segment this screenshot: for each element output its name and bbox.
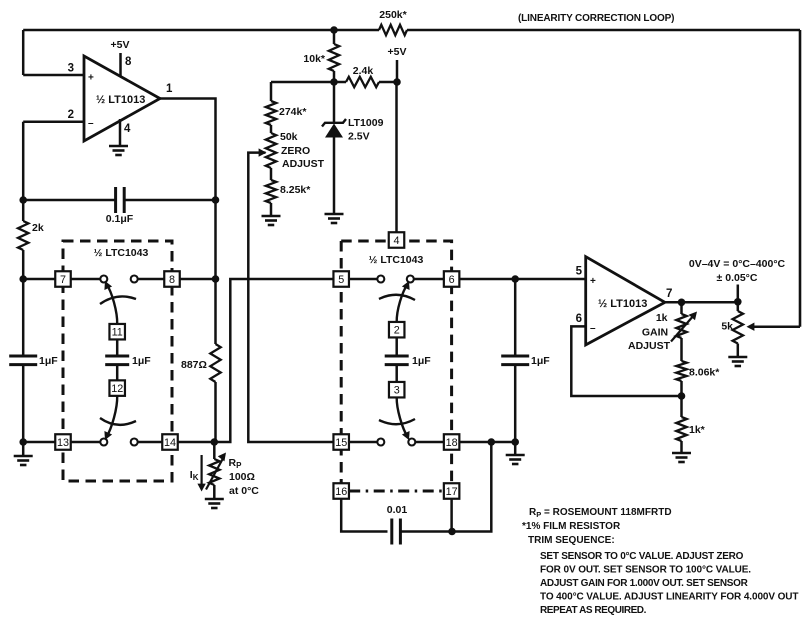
wire: pin7 lead (23, 278, 55, 281)
svg-text:+5V: +5V (111, 39, 130, 51)
wire: linearity loop top horizontal (left segment) (23, 29, 379, 32)
current label IK arrow (201, 455, 203, 488)
svg-text:½ LT1013: ½ LT1013 (96, 94, 145, 106)
resistor R1 2k (18, 221, 28, 250)
svg-text:5: 5 (576, 266, 583, 278)
wire: LT1009 to ground (333, 138, 336, 215)
ground: LT1009 (325, 213, 344, 216)
svg-text:6: 6 (449, 274, 455, 286)
wire: switch arm upper (left block) (106, 284, 117, 325)
wire: 0.1uF row left (23, 199, 115, 202)
svg-text:*1% FILM RESISTOR: *1% FILM RESISTOR (522, 521, 621, 532)
svg-text:2.5V: 2.5V (348, 131, 370, 143)
wire: pin18 lead right (460, 441, 516, 444)
wire: 2k to pin7 row (22, 250, 25, 279)
wire: 1k to 8.06k (680, 338, 683, 361)
pin 2 box (389, 322, 405, 338)
wire: 274k to 50k (270, 125, 273, 133)
resistor R4 2.4k (346, 77, 379, 87)
wire: switch arm lower (middle block) (397, 398, 408, 438)
switch throw contact (left lower) (131, 439, 138, 446)
svg-text:1: 1 (166, 83, 173, 95)
svg-text:11: 11 (112, 327, 123, 339)
svg-text:3: 3 (68, 63, 74, 75)
wire: throw to pin14 (138, 441, 162, 444)
svg-text:1k*: 1k* (689, 424, 706, 436)
wire: node to Rp (213, 442, 216, 459)
wire: pin13 to switch pole (71, 441, 100, 444)
wire: node row to 2.4k (334, 81, 346, 84)
wire: 0.01 to riser (400, 442, 491, 532)
svg-text:LT1009: LT1009 (348, 117, 384, 129)
node: 0.1uF right junction (212, 196, 220, 204)
wire: Rp to ground (213, 485, 216, 499)
svg-text:REPEAT AS REQUIRED.: REPEAT AS REQUIRED. (540, 605, 647, 616)
svg-text:0V–4V = 0°C–400°C: 0V–4V = 0°C–400°C (689, 258, 786, 270)
svg-text:4: 4 (124, 123, 131, 135)
node: left pin7 row junction (19, 275, 27, 283)
svg-text:7: 7 (60, 274, 66, 286)
svg-text:5: 5 (338, 274, 344, 286)
svg-text:14: 14 (164, 437, 176, 449)
wire: 0.1uF row right (124, 199, 215, 202)
ground: 5k (728, 356, 747, 359)
potentiometer R6 50k ZERO ADJUST (266, 133, 276, 168)
op-amp U1 1/2 LT1013 (84, 56, 160, 141)
wire: pin16 down (341, 499, 387, 532)
capacitor C2 0.1uF (114, 187, 117, 213)
wire: switch arm lower (left block) (106, 396, 117, 438)
power +5V stub (middle) (396, 60, 399, 82)
switch throw contact (middle lower) (377, 439, 384, 446)
node: 10k/2.4k junction (330, 78, 338, 86)
ground: 8.25k (262, 215, 281, 218)
wire: pin8 lead (180, 278, 216, 281)
node: pin8 row junction (212, 275, 220, 283)
svg-text:at 0°C: at 0°C (229, 485, 259, 497)
svg-text:4: 4 (393, 235, 399, 247)
svg-text:18: 18 (446, 437, 458, 449)
capacitor C4 1uF (flying, middle) (385, 355, 409, 358)
wire: U3 pin6 feedback (571, 326, 681, 396)
svg-text:ADJUST: ADJUST (628, 340, 671, 352)
node: 0.01 riser junction (488, 438, 496, 446)
svg-text:ADJUST: ADJUST (282, 158, 325, 170)
node: left pin13 row junction (19, 438, 27, 446)
wire: zero adjust wiper to pin15 (248, 153, 334, 442)
node: pin17/0.01 junction (448, 528, 456, 536)
wire: throw to pin8 (138, 278, 164, 281)
svg-text:17: 17 (446, 486, 458, 498)
pin 18 box (444, 434, 460, 450)
wire: 10k top lead (333, 30, 336, 44)
ground: 1k* (672, 452, 691, 455)
wire: pin17 down (450, 499, 453, 532)
svg-text:(LINEARITY CORRECTION LOOP): (LINEARITY CORRECTION LOOP) (518, 13, 674, 24)
potentiometer R8 1k GAIN ADJUST (680, 302, 683, 314)
wire: U1 pin 4 stub (119, 119, 122, 146)
resistor R2 887ohm (210, 344, 220, 382)
wire: pole to pin6 (414, 278, 444, 281)
svg-text:5k: 5k (721, 321, 733, 333)
svg-text:2: 2 (68, 109, 74, 121)
svg-text:8.06k*: 8.06k* (689, 367, 720, 379)
wire: 1uF top lead (514, 279, 517, 356)
svg-text:15: 15 (335, 437, 347, 449)
wire: U1 pin 3 input (23, 74, 84, 77)
svg-text:ADJUST GAIN FOR 1.000V OUT. SE: ADJUST GAIN FOR 1.000V OUT. SET SENSOR (540, 578, 749, 589)
pin 3 box (389, 382, 405, 398)
power +5V stub U1 pin 8 (119, 53, 122, 77)
pin 17 box (444, 483, 460, 499)
pin 7 box (55, 271, 71, 287)
capacitor C1 1uF (left) (9, 355, 37, 358)
wire: 1uF bottom lead (514, 365, 517, 442)
node: 250k/10k junction (330, 26, 338, 34)
wire: linearity loop right vertical (799, 30, 802, 327)
resistor R10 1k* (676, 417, 686, 441)
wire: 1k* to ground (680, 441, 683, 453)
wire: pin13 lead (23, 441, 55, 444)
wire: left column to ground (22, 442, 25, 456)
wire: 8.25k to ground (270, 203, 273, 216)
svg-text:SET SENSOR TO 0°C VALUE. ADJUS: SET SENSOR TO 0°C VALUE. ADJUST ZERO (540, 551, 744, 562)
capacitor C6 0.01 (390, 519, 393, 545)
svg-text:GAIN: GAIN (642, 327, 668, 339)
wire: 10k bottom lead (333, 71, 336, 82)
svg-text:100Ω: 100Ω (229, 471, 255, 483)
node: left 0.1uF junction (19, 196, 27, 204)
wire: pin2 to cap (395, 338, 398, 357)
wire: pin6 lead to 1uF node (460, 278, 516, 281)
switch pole contact (middle lower) (408, 439, 415, 446)
wire: switch arm upper (middle block) (397, 284, 408, 323)
pin 4 box (389, 232, 405, 248)
ground: left column (14, 455, 33, 458)
wire: feedback node to 1k* (680, 396, 683, 417)
svg-text:ZERO: ZERO (281, 145, 310, 157)
svg-text:8: 8 (125, 56, 132, 68)
svg-text:–: – (590, 323, 596, 334)
node: 1uF bottom junction (511, 438, 519, 446)
potentiometer R11 5k (733, 311, 743, 344)
svg-text:½ LTC1043: ½ LTC1043 (94, 247, 149, 259)
switch motion arc (left lower) (100, 418, 136, 425)
svg-text:0.01: 0.01 (387, 504, 408, 516)
wire: 274k top lead (270, 82, 273, 101)
pin 6 box (444, 271, 460, 287)
svg-text:1μF: 1μF (132, 355, 151, 367)
node: output junction (734, 298, 742, 306)
capacitor C5 1uF (output filter) (501, 355, 529, 358)
svg-text:+: + (590, 276, 596, 287)
switch throw contact (left upper) (131, 276, 138, 283)
wire: left column pin7 row to 1uF (22, 279, 25, 356)
pin 8 box (164, 271, 180, 287)
svg-text:13: 13 (57, 437, 69, 449)
svg-text:FOR 0V OUT. SET SENSOR TO 100°: FOR 0V OUT. SET SENSOR TO 100°C VALUE. (540, 565, 751, 576)
pin 11 box (109, 324, 125, 340)
svg-text:274k*: 274k* (279, 106, 307, 118)
capacitor C3 1uF (flying, left) (105, 355, 129, 358)
svg-text:8: 8 (169, 274, 175, 286)
wire: 1uF node to ground (514, 442, 517, 455)
wire: 1uF to pin13 row (22, 365, 25, 442)
svg-text:TO 400°C VALUE. ADJUST LINEARI: TO 400°C VALUE. ADJUST LINEARITY FOR 4.0… (540, 592, 798, 603)
svg-text:1μF: 1μF (39, 355, 58, 367)
svg-text:50k: 50k (280, 131, 298, 143)
resistor RP platinum sensor 100ohm (209, 459, 219, 485)
svg-text:12: 12 (111, 383, 123, 395)
wire: left column to 2k (22, 200, 25, 221)
svg-text:3: 3 (394, 385, 400, 397)
pin 15 box (333, 434, 349, 450)
wire: pole to pin18 (415, 441, 443, 444)
wire: +5V node down to pin 4 (395, 82, 398, 233)
wire: U1 output pin 1 to node (160, 99, 216, 201)
wire: U1 pin 2 input (23, 120, 84, 123)
op-amp U3 1/2 LT1013 (586, 257, 665, 345)
svg-text:+: + (88, 73, 94, 84)
svg-text:2: 2 (394, 325, 400, 337)
pin 5 box (333, 271, 349, 287)
switch motion arc (middle lower) (379, 419, 415, 424)
switch pole contact (left upper) (100, 276, 107, 283)
resistor R5 274k* (266, 101, 276, 125)
svg-text:7: 7 (666, 288, 672, 300)
svg-text:10k*: 10k* (303, 53, 326, 65)
svg-text:2k: 2k (32, 222, 44, 234)
wire: pin5 to throw contact (349, 278, 377, 281)
pin 14 box (162, 434, 178, 450)
svg-text:RP = ROSEMOUNT 118MFRTD: RP = ROSEMOUNT 118MFRTD (529, 507, 672, 519)
svg-text:± 0.05°C: ± 0.05°C (717, 272, 758, 284)
pin 12 box (109, 380, 125, 396)
IC block U2a 1/2 LTC1043 dashed box (63, 241, 172, 481)
node: pin14 row junction (211, 438, 219, 446)
ground: Rp (205, 498, 224, 501)
wire: output node to 5k (737, 302, 740, 311)
svg-text:16: 16 (335, 486, 347, 498)
svg-text:0.1μF: 0.1μF (106, 213, 134, 225)
svg-text:½ LT1013: ½ LT1013 (598, 298, 647, 310)
svg-text:–: – (88, 118, 94, 129)
wire: pin7 to switch pole (71, 278, 100, 281)
wire: left column pin2 down to 0.1uF row (22, 122, 25, 200)
resistor R9 8.06k* (676, 361, 686, 381)
zener diode D1 LT1009 2.5V (325, 124, 343, 138)
wire: LT1009 top lead (333, 82, 336, 122)
wire: cap to pin3 (395, 365, 398, 382)
pin 16 box (333, 483, 349, 499)
wire: node row 274k to 10k (271, 81, 334, 84)
node: +5V/pin4 junction (393, 78, 401, 86)
IC block U2b 1/2 LTC1043 dashed box (341, 241, 451, 491)
node: 1k gain junction (678, 299, 686, 307)
switch motion arc (middle upper) (379, 295, 415, 300)
IC block bottom dash-dot edge pins 16-17 (349, 490, 443, 493)
wire: 1uF node to U3 pin5 (515, 278, 586, 281)
svg-text:TRIM SEQUENCE:: TRIM SEQUENCE: (528, 535, 615, 546)
svg-text:1μF: 1μF (531, 355, 550, 367)
wire: 887 to pin14 row (214, 382, 217, 442)
wire: pin8 row to 887 (214, 279, 217, 344)
wire: pin11 to cap (116, 340, 119, 357)
wire: 2.4k to +5V node (379, 81, 397, 84)
wire: pin15 to throw contact (349, 441, 377, 444)
svg-text:8.25k*: 8.25k* (280, 184, 311, 196)
wire: sense line pin14 node up to pin5 row (214, 279, 335, 442)
svg-text:½ LTC1043: ½ LTC1043 (369, 254, 424, 266)
svg-text:6: 6 (576, 313, 582, 325)
wire: pin14 lead (178, 441, 214, 444)
wire: output column 0.1uF row to pin8 row (214, 200, 217, 279)
wire: linearity loop top horizontal (right segment) (407, 29, 800, 32)
switch pole contact (left lower) (100, 439, 107, 446)
svg-text:2.4k: 2.4k (353, 65, 374, 77)
wire: 50k to 8.25k (270, 168, 273, 180)
resistor R-LIN 250k* (379, 25, 407, 35)
wire: linearity loop to 5k wiper (750, 325, 800, 328)
svg-text:1k: 1k (656, 312, 668, 324)
wire: 5k to ground (737, 344, 740, 358)
wire: 8.06k to feedback node (680, 381, 683, 396)
ground: U1 pin 4 (109, 145, 128, 148)
wire: cap to pin12 (116, 365, 119, 380)
wire: output stub up (737, 285, 740, 303)
wire: linearity loop, left vertical to op-amp U1 pin 3 (22, 30, 25, 75)
switch pole contact (middle upper) (407, 276, 414, 283)
wire: U3 output (665, 301, 738, 304)
resistor R3 10k* (329, 44, 339, 71)
switch motion arc (left upper) (100, 296, 136, 304)
switch throw contact (middle upper) (377, 276, 384, 283)
ground: 1uF output (506, 454, 525, 457)
node: pin6/1uF junction (511, 275, 519, 283)
pin 13 box (55, 434, 71, 450)
node: feedback junction (678, 392, 686, 400)
svg-text:1μF: 1μF (412, 355, 431, 367)
resistor R7 8.25k* (266, 180, 276, 203)
svg-text:887Ω: 887Ω (181, 359, 207, 371)
svg-text:+5V: +5V (388, 46, 407, 58)
svg-text:250k*: 250k* (379, 9, 407, 21)
